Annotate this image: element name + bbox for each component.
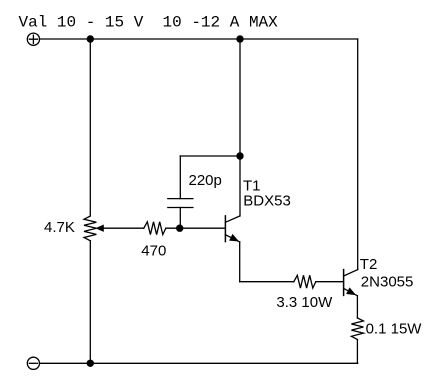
- svg-text:BDX53: BDX53: [243, 192, 291, 209]
- wire right vertical: [357, 39, 359, 270]
- svg-text:220p: 220p: [189, 172, 222, 189]
- transistor T1 emitter arrow: [230, 235, 238, 241]
- wire T1 emitter vertical: [239, 242, 241, 282]
- capacitor 220p plates: [168, 199, 193, 208]
- svg-text:Val 10 - 15 V 10 -12 A MAX: Val 10 - 15 V 10 -12 A MAX: [19, 14, 279, 32]
- svg-text:3.3 10W: 3.3 10W: [276, 294, 333, 311]
- wire left vertical upper: [89, 39, 91, 216]
- wire left vertical lower: [89, 241, 91, 363]
- transistor T2 emitter lead: [344, 288, 358, 295]
- transistor T1 emitter lead: [225, 235, 239, 242]
- wire to bottom rail: [356, 340, 358, 364]
- transistor T1 collector lead: [225, 216, 240, 222]
- wire capacitor branch horizontal: [180, 155, 240, 157]
- wire top rail: [40, 38, 358, 40]
- wire middle vertical collector T1: [239, 39, 241, 216]
- potentiometer wiper arrowhead: [97, 225, 104, 231]
- wire to T2 base: [316, 281, 343, 283]
- terminal plus: [27, 33, 39, 45]
- wire T2 emitter vertical: [356, 296, 358, 318]
- svg-text:2N3055: 2N3055: [361, 274, 414, 291]
- svg-text:470: 470: [141, 243, 166, 260]
- svg-text:4.7K: 4.7K: [44, 219, 75, 236]
- node junction top left: [87, 35, 94, 42]
- node junction top middle: [236, 35, 243, 42]
- potentiometer wiper wire: [99, 227, 144, 229]
- node junction base: [176, 225, 183, 232]
- resistor 0.1 15W body: [351, 318, 363, 340]
- wire capacitor bottom lead: [179, 208, 181, 229]
- svg-text:0.1 15W: 0.1 15W: [366, 321, 423, 338]
- svg-text:T2: T2: [360, 256, 378, 273]
- wire T2 base horizontal: [240, 281, 294, 283]
- resistor 470: [144, 222, 166, 235]
- transistor T2 emitter arrow: [347, 288, 355, 294]
- node junction collector branch: [236, 152, 243, 159]
- wire capacitor top lead: [179, 156, 181, 199]
- potentiometer R1 4.7K body: [84, 216, 96, 241]
- terminal minus: [27, 357, 39, 369]
- resistor 3.3 10W: [294, 275, 316, 288]
- wire base T1: [166, 227, 225, 229]
- transistor T2 collector lead: [344, 270, 358, 276]
- wire bottom rail: [40, 362, 358, 364]
- transistor T2 base bar: [343, 270, 345, 296]
- node junction bottom left: [87, 360, 94, 367]
- transistor T1 base bar: [224, 216, 226, 242]
